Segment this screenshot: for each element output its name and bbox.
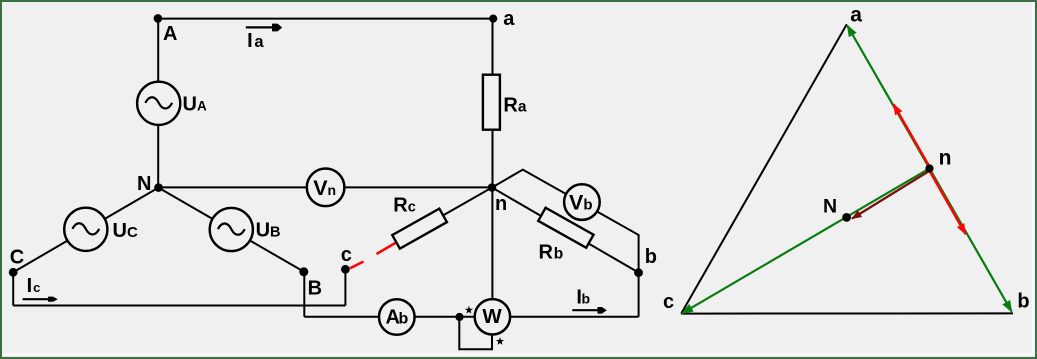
maroon vector n to N (neutral shift) <box>852 172 928 219</box>
wire c up <box>344 270 346 306</box>
broken wire c to Rc (red dash 1) <box>350 262 364 269</box>
wire B to Ab to W to below b <box>304 316 638 318</box>
resistor Ra <box>483 75 500 130</box>
wire Rc to n <box>443 188 492 216</box>
wire A to N (through UA) <box>157 19 159 188</box>
triangle side a-c (black) <box>681 24 847 313</box>
svg-text:N: N <box>137 173 151 195</box>
wire bottom C to below c <box>13 305 345 307</box>
green vector n to a <box>847 26 929 169</box>
wire C to N (through UC) <box>13 188 158 273</box>
svg-text:n: n <box>495 193 507 215</box>
svg-text:c: c <box>341 244 352 266</box>
current arrow Ia <box>246 24 282 52</box>
node n <box>488 183 497 192</box>
svg-text:Rb: Rb <box>539 241 564 263</box>
svg-text:Ab: Ab <box>386 306 409 328</box>
wire up to b <box>638 273 640 317</box>
svg-text:b: b <box>1017 291 1029 313</box>
node N <box>154 183 163 192</box>
svg-text:N: N <box>823 196 837 218</box>
svg-text:n: n <box>939 147 952 170</box>
svg-text:b: b <box>645 246 657 268</box>
node A <box>154 14 163 23</box>
broken wire c to Rc (red dash 2) <box>377 242 397 254</box>
resistor Rb <box>538 208 593 248</box>
svg-text:UC: UC <box>113 220 138 242</box>
svg-text:W: W <box>482 305 502 328</box>
svg-text:Ra: Ra <box>503 94 526 116</box>
wire n to Vb to b (voltmeter branch) <box>492 170 639 273</box>
wire N to B (through UB) <box>158 188 304 272</box>
phasor node n dot <box>925 164 933 172</box>
svg-text:Ia: Ia <box>247 30 264 52</box>
wattmeter asterisk top <box>465 306 473 314</box>
wattmeter asterisk bottom <box>496 337 504 345</box>
svg-text:c: c <box>663 291 674 313</box>
node c <box>341 265 350 274</box>
svg-text:C: C <box>10 246 24 268</box>
source UB <box>210 208 253 251</box>
svg-text:a: a <box>503 8 515 30</box>
wire n to Rb to b <box>492 188 639 273</box>
svg-text:A: A <box>163 23 177 45</box>
inner white edge lines <box>2 353 1033 355</box>
junction dot (wattmeter tap) <box>455 313 463 321</box>
red current vector n toward a <box>894 104 931 169</box>
wire N to n (through Vn) <box>158 186 492 188</box>
source UA <box>137 82 180 125</box>
voltmeter Vb <box>564 184 600 220</box>
node B <box>299 267 308 276</box>
svg-text:a: a <box>850 4 862 27</box>
svg-text:B: B <box>308 277 322 299</box>
node C <box>9 268 18 277</box>
green vector n to b <box>930 168 1012 311</box>
current arrow Ic <box>23 275 58 302</box>
wire n down to W <box>491 188 493 317</box>
node b <box>634 268 643 277</box>
wire B down <box>303 272 305 317</box>
triangle side c-b (black) <box>681 312 1013 314</box>
wattmeter voltage coil loop <box>459 317 492 350</box>
ammeter Ab <box>379 299 415 335</box>
wire a to n (through Ra) <box>492 19 494 188</box>
source UC <box>64 208 107 251</box>
wire C down <box>12 272 14 305</box>
phasor node N dot <box>842 213 851 222</box>
green vector n to c <box>682 168 930 313</box>
node a <box>489 15 497 23</box>
svg-text:Ib: Ib <box>576 287 590 309</box>
wattmeter W <box>475 299 510 334</box>
wire A-a (top) <box>158 18 493 20</box>
voltmeter Vn <box>307 169 345 207</box>
resistor Rc <box>392 209 447 249</box>
red current vector n toward b <box>929 170 966 234</box>
current arrow Ib <box>572 287 607 314</box>
